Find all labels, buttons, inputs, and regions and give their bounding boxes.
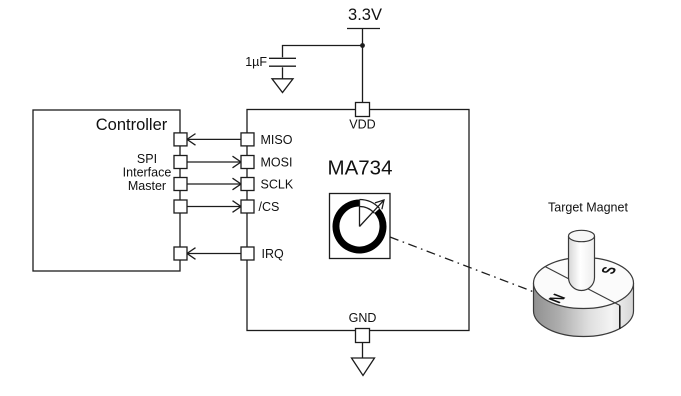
svg-text:Target Magnet: Target Magnet [548,201,628,215]
wire /CS [187,201,241,213]
magnet pole separator line [545,267,620,306]
svg-text:Master: Master [128,179,166,193]
MA734 box [247,110,469,331]
SPI Interface Master label [123,152,172,193]
svg-text:3.3V: 3.3V [348,6,382,24]
svg-text:MOSI: MOSI [261,155,293,169]
magnet side seam line [619,306,621,329]
rotation axis dash-dot line [390,237,534,292]
pin MISO label [261,133,293,147]
wire 3.3V to VDD [362,29,364,103]
angle sensor icon box [330,194,391,259]
wire MOSI [187,156,241,168]
magnet shaft body [569,236,595,291]
target magnet label [548,201,628,215]
angle sensor ring [336,203,383,250]
pin SCLK label [261,177,294,191]
svg-text:IRQ: IRQ [262,247,285,261]
angle sensor arrow [360,200,385,227]
MA734 pin squares [241,133,254,260]
wire C1 to ground [282,67,284,79]
wire SCLK [187,178,241,190]
MA734 label [328,157,393,180]
svg-text:MISO: MISO [261,133,293,147]
controller box [33,110,180,271]
magnet disc side wall [534,283,634,337]
svg-text:Interface: Interface [123,166,172,180]
capacitor C1 [269,58,296,66]
power rail 3.3V label [348,6,382,24]
svg-text:SCLK: SCLK [261,177,294,191]
magnet disc top face [534,258,634,309]
svg-text:GND: GND [349,311,377,325]
power rail 3.3V bar [347,28,380,30]
svg-text:MA734: MA734 [328,157,393,180]
angle sensor zero radius line [359,200,361,227]
pin VDD label [349,118,375,132]
wire GND to ground [362,343,364,359]
magnet shaft top ellipse [569,230,595,241]
ground (GND pin) [352,358,375,376]
controller pin squares [174,133,187,260]
capacitor C1 value 1uF [245,55,267,69]
node junction at 3.3V/C1 [360,43,365,48]
ground (capacitor) [272,79,293,93]
target magnet [534,230,634,336]
svg-text:Controller: Controller [96,116,168,134]
controller label [96,116,168,134]
pin GND square [356,329,370,343]
pin VDD square [356,103,370,117]
pin MOSI label [261,155,293,169]
wire MISO [187,134,241,146]
wire IRQ [187,248,241,260]
angle sensor ring gap arcs [360,200,380,214]
pin IRQ label [262,247,285,261]
svg-text:SPI: SPI [137,152,157,166]
wire junction to C1 [283,46,363,58]
svg-text:1µF: 1µF [245,55,267,69]
pin GND label [349,311,377,325]
svg-text:VDD: VDD [349,118,375,132]
pin /CS label [259,200,280,214]
svg-text:/CS: /CS [259,200,280,214]
